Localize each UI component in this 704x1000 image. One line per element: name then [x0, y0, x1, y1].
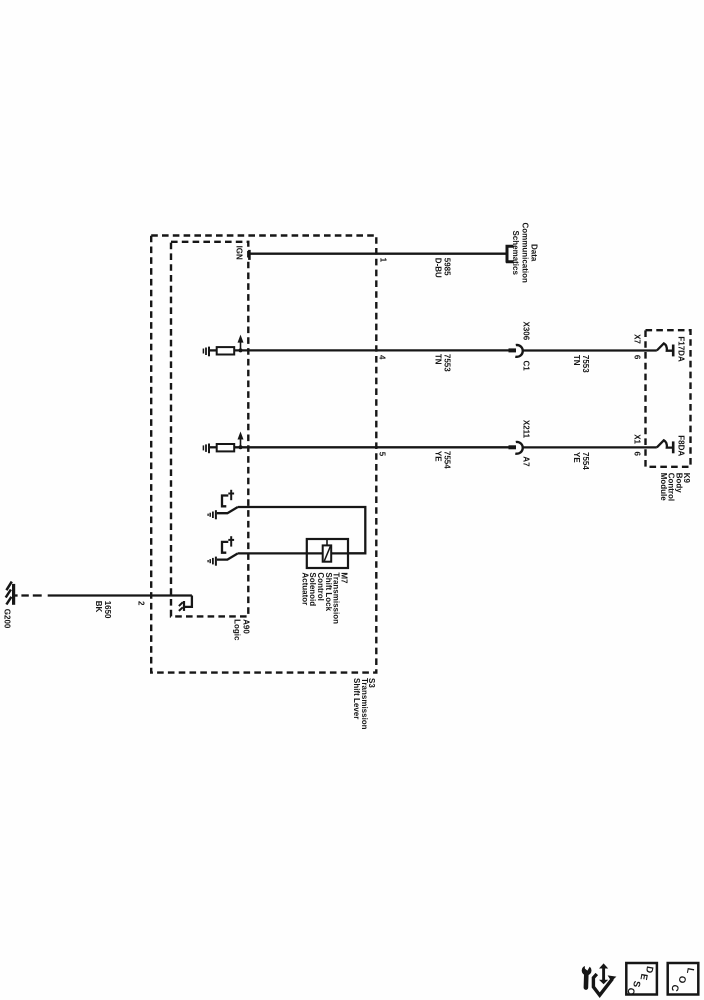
fuse F17DA	[657, 343, 672, 350]
icon wrench with arrow	[582, 963, 617, 995]
svg-text:E: E	[637, 973, 649, 981]
svg-text:IGN: IGN	[235, 246, 244, 260]
wire upper switch loop to M7 right	[238, 507, 365, 553]
module K9 Body Control Module dashed box	[646, 330, 691, 467]
svg-text:7554: 7554	[581, 452, 590, 470]
svg-text:6: 6	[633, 355, 642, 360]
connector X306 arc	[515, 345, 522, 357]
svg-text:X7: X7	[633, 334, 642, 344]
svg-text:5985: 5985	[443, 258, 452, 276]
arrow up wire3	[240, 438, 242, 447]
svg-text:BK: BK	[94, 601, 103, 613]
ground G200 symbol	[6, 582, 14, 605]
svg-text:TN: TN	[433, 354, 442, 365]
svg-text:1: 1	[379, 258, 388, 263]
svg-text:S: S	[630, 980, 642, 988]
wire 7553 TN left segment	[234, 349, 509, 351]
wire lower switch to M7	[238, 552, 365, 554]
svg-text:7554: 7554	[443, 451, 452, 469]
svg-text:D: D	[643, 965, 655, 974]
svg-text:A90: A90	[242, 619, 251, 634]
svg-text:C1: C1	[521, 361, 530, 372]
svg-text:Communication: Communication	[520, 222, 529, 283]
wire 7554 YE left segment	[234, 446, 509, 448]
arrow up wire2	[240, 341, 242, 350]
connector X211 arc	[515, 442, 522, 454]
icon LOC box	[668, 963, 699, 995]
svg-text:6: 6	[633, 452, 642, 457]
fuse F8DA	[657, 440, 672, 447]
svg-text:O: O	[676, 975, 688, 984]
svg-text:YE: YE	[572, 452, 581, 463]
svg-text:Actuator: Actuator	[300, 572, 309, 605]
connector X211 A7 pin	[509, 445, 517, 449]
svg-text:2: 2	[137, 601, 146, 606]
svg-text:X306: X306	[521, 322, 530, 341]
junction dot wire3	[239, 445, 243, 449]
wire 5985 D-BU serial data	[250, 253, 506, 255]
svg-text:C: C	[668, 984, 680, 993]
svg-text:4: 4	[378, 355, 387, 360]
svg-text:F8DA: F8DA	[676, 435, 685, 456]
svg-text:Logic: Logic	[233, 619, 242, 641]
svg-text:7553: 7553	[443, 354, 452, 372]
svg-text:L: L	[684, 967, 696, 975]
svg-text:1650: 1650	[103, 601, 112, 619]
svg-text:Schematics: Schematics	[511, 230, 520, 275]
svg-text:YE: YE	[433, 451, 442, 462]
svg-text:7553: 7553	[581, 355, 590, 373]
icon DESC box	[626, 963, 657, 995]
junction dot wire2	[239, 348, 243, 352]
svg-text:D-BU: D-BU	[433, 258, 442, 278]
module A90 Logic dashed box	[171, 242, 248, 617]
internal ground inside A90	[179, 601, 184, 611]
wire 7554 YE right segment	[523, 446, 657, 448]
svg-text:Data: Data	[530, 244, 539, 262]
switch Q upper pin and contact	[208, 490, 238, 520]
solenoid element inside M7	[326, 539, 328, 545]
resistor wire3 left with internal ground	[203, 444, 234, 454]
svg-text:Shift Lever: Shift Lever	[352, 678, 361, 719]
svg-text:F17DA: F17DA	[676, 336, 685, 362]
svg-text:Module: Module	[659, 473, 668, 502]
wire 7553 TN right segment	[523, 349, 657, 351]
svg-text:TN: TN	[572, 355, 581, 366]
bus bracket Data Communication	[506, 245, 514, 263]
pin tick IGN	[248, 250, 251, 260]
svg-text:A7: A7	[521, 456, 530, 467]
wire 1650 BK ground run	[14, 594, 18, 596]
svg-text:5: 5	[378, 452, 387, 457]
actuator M7 box	[307, 539, 348, 568]
svg-text:G200: G200	[3, 609, 12, 629]
switch Q lower pin and contact	[208, 536, 238, 566]
resistor wire2 left with internal ground	[203, 347, 234, 357]
switch S3 Transmission Shift Lever dashed box	[151, 236, 376, 673]
connector X306 C1 pin	[509, 348, 517, 352]
svg-text:X1: X1	[633, 434, 642, 444]
svg-text:X211: X211	[521, 420, 530, 439]
